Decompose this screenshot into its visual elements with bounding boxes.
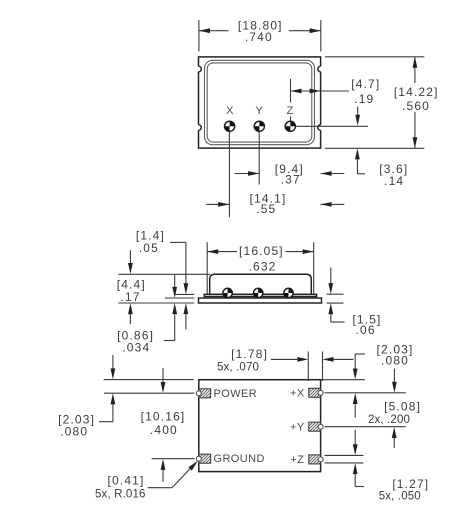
svg-text:POWER: POWER [214, 388, 258, 400]
svg-text:.19: .19 [354, 92, 374, 106]
svg-text:5x, .070: 5x, .070 [217, 362, 259, 374]
svg-text:[14.22]: [14.22] [394, 85, 439, 99]
svg-text:Y: Y [256, 105, 264, 117]
svg-text:.06: .06 [356, 323, 376, 337]
svg-text:.05: .05 [139, 241, 159, 255]
svg-text:5x, R.016: 5x, R.016 [95, 488, 146, 500]
svg-text:.632: .632 [249, 259, 277, 273]
svg-text:.080: .080 [60, 425, 88, 439]
svg-text:2x, .200: 2x, .200 [368, 414, 410, 426]
svg-text:5x, .050: 5x, .050 [379, 490, 421, 502]
svg-text:GROUND: GROUND [214, 453, 265, 465]
svg-text:+Z: +Z [290, 454, 304, 466]
svg-text:.400: .400 [150, 423, 178, 437]
svg-text:[16.05]: [16.05] [239, 244, 284, 258]
svg-text:X: X [226, 105, 234, 117]
svg-text:.560: .560 [402, 99, 430, 113]
svg-text:[10.16]: [10.16] [141, 410, 186, 424]
svg-text:[0.41]: [0.41] [108, 474, 145, 488]
svg-text:.080: .080 [381, 354, 409, 368]
svg-text:.55: .55 [256, 202, 276, 216]
svg-text:[4.7]: [4.7] [351, 77, 380, 91]
svg-text:[1.78]: [1.78] [231, 347, 268, 361]
svg-text:.034: .034 [122, 341, 150, 355]
svg-text:+Y: +Y [290, 422, 305, 434]
svg-text:.14: .14 [384, 174, 404, 188]
svg-text:.740: .740 [245, 30, 273, 44]
svg-text:Z: Z [286, 105, 293, 117]
svg-text:+X: +X [290, 388, 305, 400]
svg-text:.37: .37 [281, 173, 301, 187]
svg-text:.17: .17 [120, 290, 140, 304]
svg-text:[5.08]: [5.08] [384, 400, 421, 414]
svg-text:[1.27]: [1.27] [392, 477, 429, 491]
